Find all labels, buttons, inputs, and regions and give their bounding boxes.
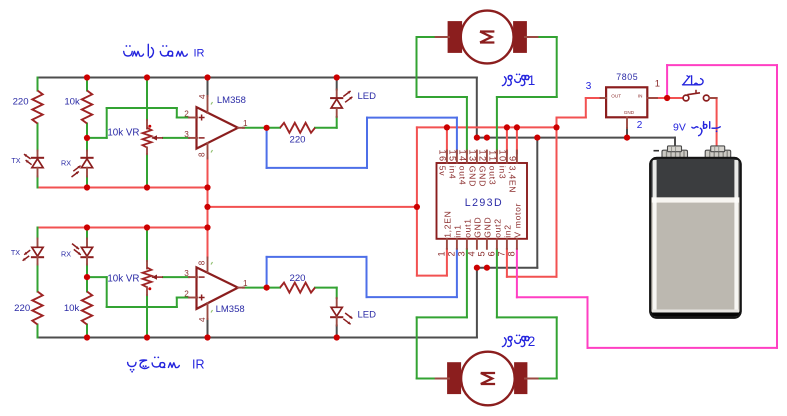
svg-text:3,4EN: 3,4EN [508,166,518,193]
svg-text:2: 2 [446,250,456,257]
svg-text:1: 1 [243,119,248,128]
svg-text:GND: GND [482,217,492,238]
op-amp U1B LM358 lower [197,267,239,309]
wire GND 7805 pin2 stub [626,128,628,138]
wire GND pins4/5 tie [477,267,537,269]
wire GND LED2 cathode stub [336,326,338,338]
svg-text:in2: in2 [502,224,512,238]
svg-text:15: 15 [447,149,457,162]
wire opamp2 output net [243,287,280,289]
svg-text:IR: IR [194,48,205,60]
svg-text:2: 2 [637,120,643,131]
svg-text:1: 1 [243,279,248,288]
svg-text:2: 2 [528,334,536,349]
svg-text:220: 220 [13,97,29,108]
junction U1B output node [264,285,270,291]
pin 4 GND [476,239,478,249]
junction VCC bus / pin10 [504,124,510,130]
junction VCC rail1 / VR1 [144,184,150,190]
wire GND drop pin4 to bottom rail [476,268,478,338]
junction GND / pin4 [474,265,480,271]
svg-text:V motor: V motor [512,203,522,238]
svg-text:2: 2 [184,109,189,118]
LED2 indicator lower [336,298,338,307]
svg-text:L293D: L293D [465,197,503,209]
wire motor1 left to pin14 out4 [417,36,436,38]
svg-text:12: 12 [477,149,487,162]
pin 13 GND [476,151,478,164]
junction VCC rail1 / pin8 riser [204,184,210,190]
svg-text:10: 10 [497,149,507,162]
wire VCC vertical at x417 [416,127,418,275]
junction GND line / 7805 gnd [624,135,630,141]
label motor 2 (persian) [502,338,506,347]
wire VCC horizontal to L293D area [208,206,417,208]
svg-text:GND: GND [468,166,478,187]
wire net opamp1 noninverting input from RX1 [87,137,107,139]
wire motor2 right to pin6 out2 [496,249,498,317]
svg-text:3: 3 [184,130,189,139]
wire GND opamp1 pin4 [207,78,209,97]
resistor R5 10k lower [82,292,92,325]
svg-text:GND: GND [478,166,488,187]
wire VCC red rail upper block [38,187,208,189]
junction GND rail / R2 top [84,74,90,80]
junction VCC rail2 / pin8 riser [204,224,210,230]
junction VCC feed / x417 riser [414,204,420,210]
svg-text:in3: in3 [498,166,508,180]
svg-text:1: 1 [436,250,446,257]
pin 12 GND [486,151,488,164]
pin 15 in4 [456,151,458,164]
label switch kelid (persian) [683,84,700,86]
junction GND line / pin13 [474,135,480,141]
wire VR1 column [146,78,148,121]
IC U2 L293D motor driver [437,163,528,239]
wire GND vertical link pins12/13 to pins4/5 [536,138,538,268]
svg-text:4: 4 [466,250,476,257]
wire net VR1 wiper to opamp1 inverting input [163,137,189,139]
svg-text:220: 220 [289,135,305,146]
wire GND horizontal to battery minus [477,137,675,139]
LED RX1 photodiode [86,151,88,159]
wire VCC bus above L293D [417,126,557,128]
junction GND line / mid riser [534,135,540,141]
wire sensor column A upper [37,78,39,91]
junction GND / pin5 [484,265,490,271]
svg-text:10k: 10k [64,303,80,314]
svg-text:9V: 9V [673,121,686,133]
resistor R2 10k upper [82,91,92,124]
svg-text:220: 220 [289,273,305,284]
wire VCC riser to pin7 in2 [556,127,558,276]
svg-text:out3: out3 [488,166,498,186]
wire opamp1 output net [243,127,280,129]
junction GND line / pin12 [484,135,490,141]
svg-text:in1: in1 [452,224,462,238]
resistor R4 220 lower [32,292,42,325]
resistor R1 220 upper [32,91,42,124]
junction VCC bus / pin9 [514,124,520,130]
junction VCC rail2 / TX2 [84,224,90,230]
pin 14 out4 [466,151,468,164]
svg-text:in4: in4 [448,166,458,180]
svg-text:RX: RX [61,249,71,258]
svg-text:16: 16 [437,149,447,162]
battery BT1 9V [662,146,731,158]
wire opamp1 output to pin15 in4 (blue) [266,128,268,168]
svg-text:11: 11 [487,150,497,162]
svg-text:8: 8 [506,250,516,257]
svg-text:1,2EN: 1,2EN [442,210,452,237]
junction RX1-R2 node to U1A in+ [84,135,90,141]
wire VCC drop to pin16 5v [446,127,448,153]
svg-text:LM358: LM358 [217,95,246,106]
svg-text:3: 3 [456,250,466,257]
pin 8 V motor [516,239,518,249]
wire sensor column A lower [37,228,39,239]
junction GND rail2 / LED2 [334,334,340,340]
pin 5 GND [486,239,488,249]
pin 9 3,4EN [516,151,518,164]
svg-text:LM358: LM358 [216,304,245,315]
svg-text:6: 6 [486,250,496,257]
svg-text:LED: LED [358,91,377,102]
pin 1 1,2EN [446,239,448,249]
potentiometer VR1 10k [146,120,148,129]
motor M1 upper [448,21,463,53]
svg-text:1: 1 [528,73,536,88]
svg-text:9: 9 [507,156,517,163]
junction VCC bus / pin16 [444,124,450,130]
svg-text:7: 7 [496,250,506,257]
wire sensor column B upper [86,78,88,91]
switch S1 [683,95,689,101]
svg-text:3: 3 [586,81,592,92]
wire net opamp2 noninverting input from RX2 [87,276,107,278]
svg-text:4: 4 [198,94,207,99]
wire VCC opamp pin8 vertical [207,158,209,258]
svg-text:10k: 10k [64,97,80,108]
pin 11 out3 [496,151,498,164]
svg-text:220: 220 [14,303,30,314]
svg-text:2: 2 [184,289,189,298]
LED TX2 infrared emitter [37,239,39,248]
resistor R6 220 opamp2 output [280,283,315,293]
junction VCC riser / feed [204,204,210,210]
wire sensor column B lower [86,228,88,239]
wire motor2 left to pin3 out1 [466,249,468,317]
wire VR2 column [146,228,148,262]
svg-text:5: 5 [476,250,486,257]
wire VCC drop to pin9 3,4EN [516,127,518,153]
wire net VR2 wiper to opamp2 inverting input [163,276,189,278]
potentiometer VR2 10k [146,261,148,269]
junction RX2-R5 node to U1B in+ [84,274,90,280]
svg-text:10k VR: 10k VR [107,273,139,284]
wire GND drop to L293D pins 13/12 [476,78,478,138]
wire opamp2 output to pin2 in1 (blue) [266,257,268,288]
wire VCC drop to pin10 in3 [506,127,508,153]
svg-text:8: 8 [198,152,207,157]
svg-text:out4: out4 [458,166,468,186]
junction VCC bus / 7805 out [553,124,559,130]
svg-text:14: 14 [457,149,467,162]
svg-text:10k VR: 10k VR [107,127,139,138]
junction VCC rail1 / TX1 [84,184,90,190]
pin 7 in2 [506,239,508,249]
junction battery plus / V-motor net [664,95,670,101]
svg-text:7805: 7805 [616,72,638,82]
pin 2 in1 [456,239,458,249]
wire V-motor net pin8 to battery switch (magenta) [516,249,518,297]
LED1 indicator upper [336,90,338,99]
pin 16 5v [446,151,448,164]
junction U1A output node [264,125,270,131]
wire motor1 right to pin11 out3 [537,36,556,38]
wire GND opamp2 pin4 [207,319,209,338]
op-amp U1A LM358 upper [197,107,239,149]
wire VCC red rail lower block [38,227,208,229]
svg-text:out1: out1 [462,218,472,238]
svg-text:IR: IR [192,357,205,371]
junction GND rail / LED1 cathode [334,74,340,80]
wire GND bottom rail (left sensor block) [38,337,477,339]
svg-text:GND: GND [624,110,635,115]
junction GND rail / VR1 top [144,74,150,80]
svg-text:LED: LED [358,309,377,320]
svg-text:8: 8 [198,260,207,265]
pin 3 out1 [466,239,468,249]
label motor 1 (persian) [502,77,506,86]
junction GND rail2 / U1B pin4 [204,334,210,340]
wire VCC from 7805 OUT pin3 [556,118,558,128]
motor M2 lower [447,362,461,394]
pin 10 in3 [506,151,508,164]
wire VCC to pin1 1,2EN [417,275,447,277]
svg-text:RX: RX [61,158,71,167]
junction GND rail2 / R5 [84,334,90,340]
wire battery plus to switch [647,97,683,99]
svg-text:TX: TX [11,156,20,165]
junction GND rail2 / VR2 [144,334,150,340]
regulator U3 7805 [606,87,647,117]
svg-text:13: 13 [467,149,477,162]
svg-text:IN: IN [638,93,643,98]
svg-text:1: 1 [655,78,660,89]
pin 6 out2 [496,239,498,249]
junction VCC rail2 / VR2 [144,224,150,230]
LED RX2 photodiode [86,239,88,248]
svg-text:3: 3 [184,269,189,278]
svg-text:TX: TX [11,248,20,257]
svg-text:OUT: OUT [611,93,621,98]
LED TX1 infrared emitter [37,151,39,159]
junction GND rail / U1A pin4 [204,74,210,80]
svg-text:out2: out2 [492,218,502,238]
svg-text:GND: GND [472,217,482,238]
svg-text:5v: 5v [438,166,448,176]
svg-text:4: 4 [198,317,207,322]
resistor R3 220 opamp1 output [280,123,315,133]
wire GND top rail (right sensor block) [38,77,477,79]
wire GND LED1 cathode stub [336,78,338,90]
